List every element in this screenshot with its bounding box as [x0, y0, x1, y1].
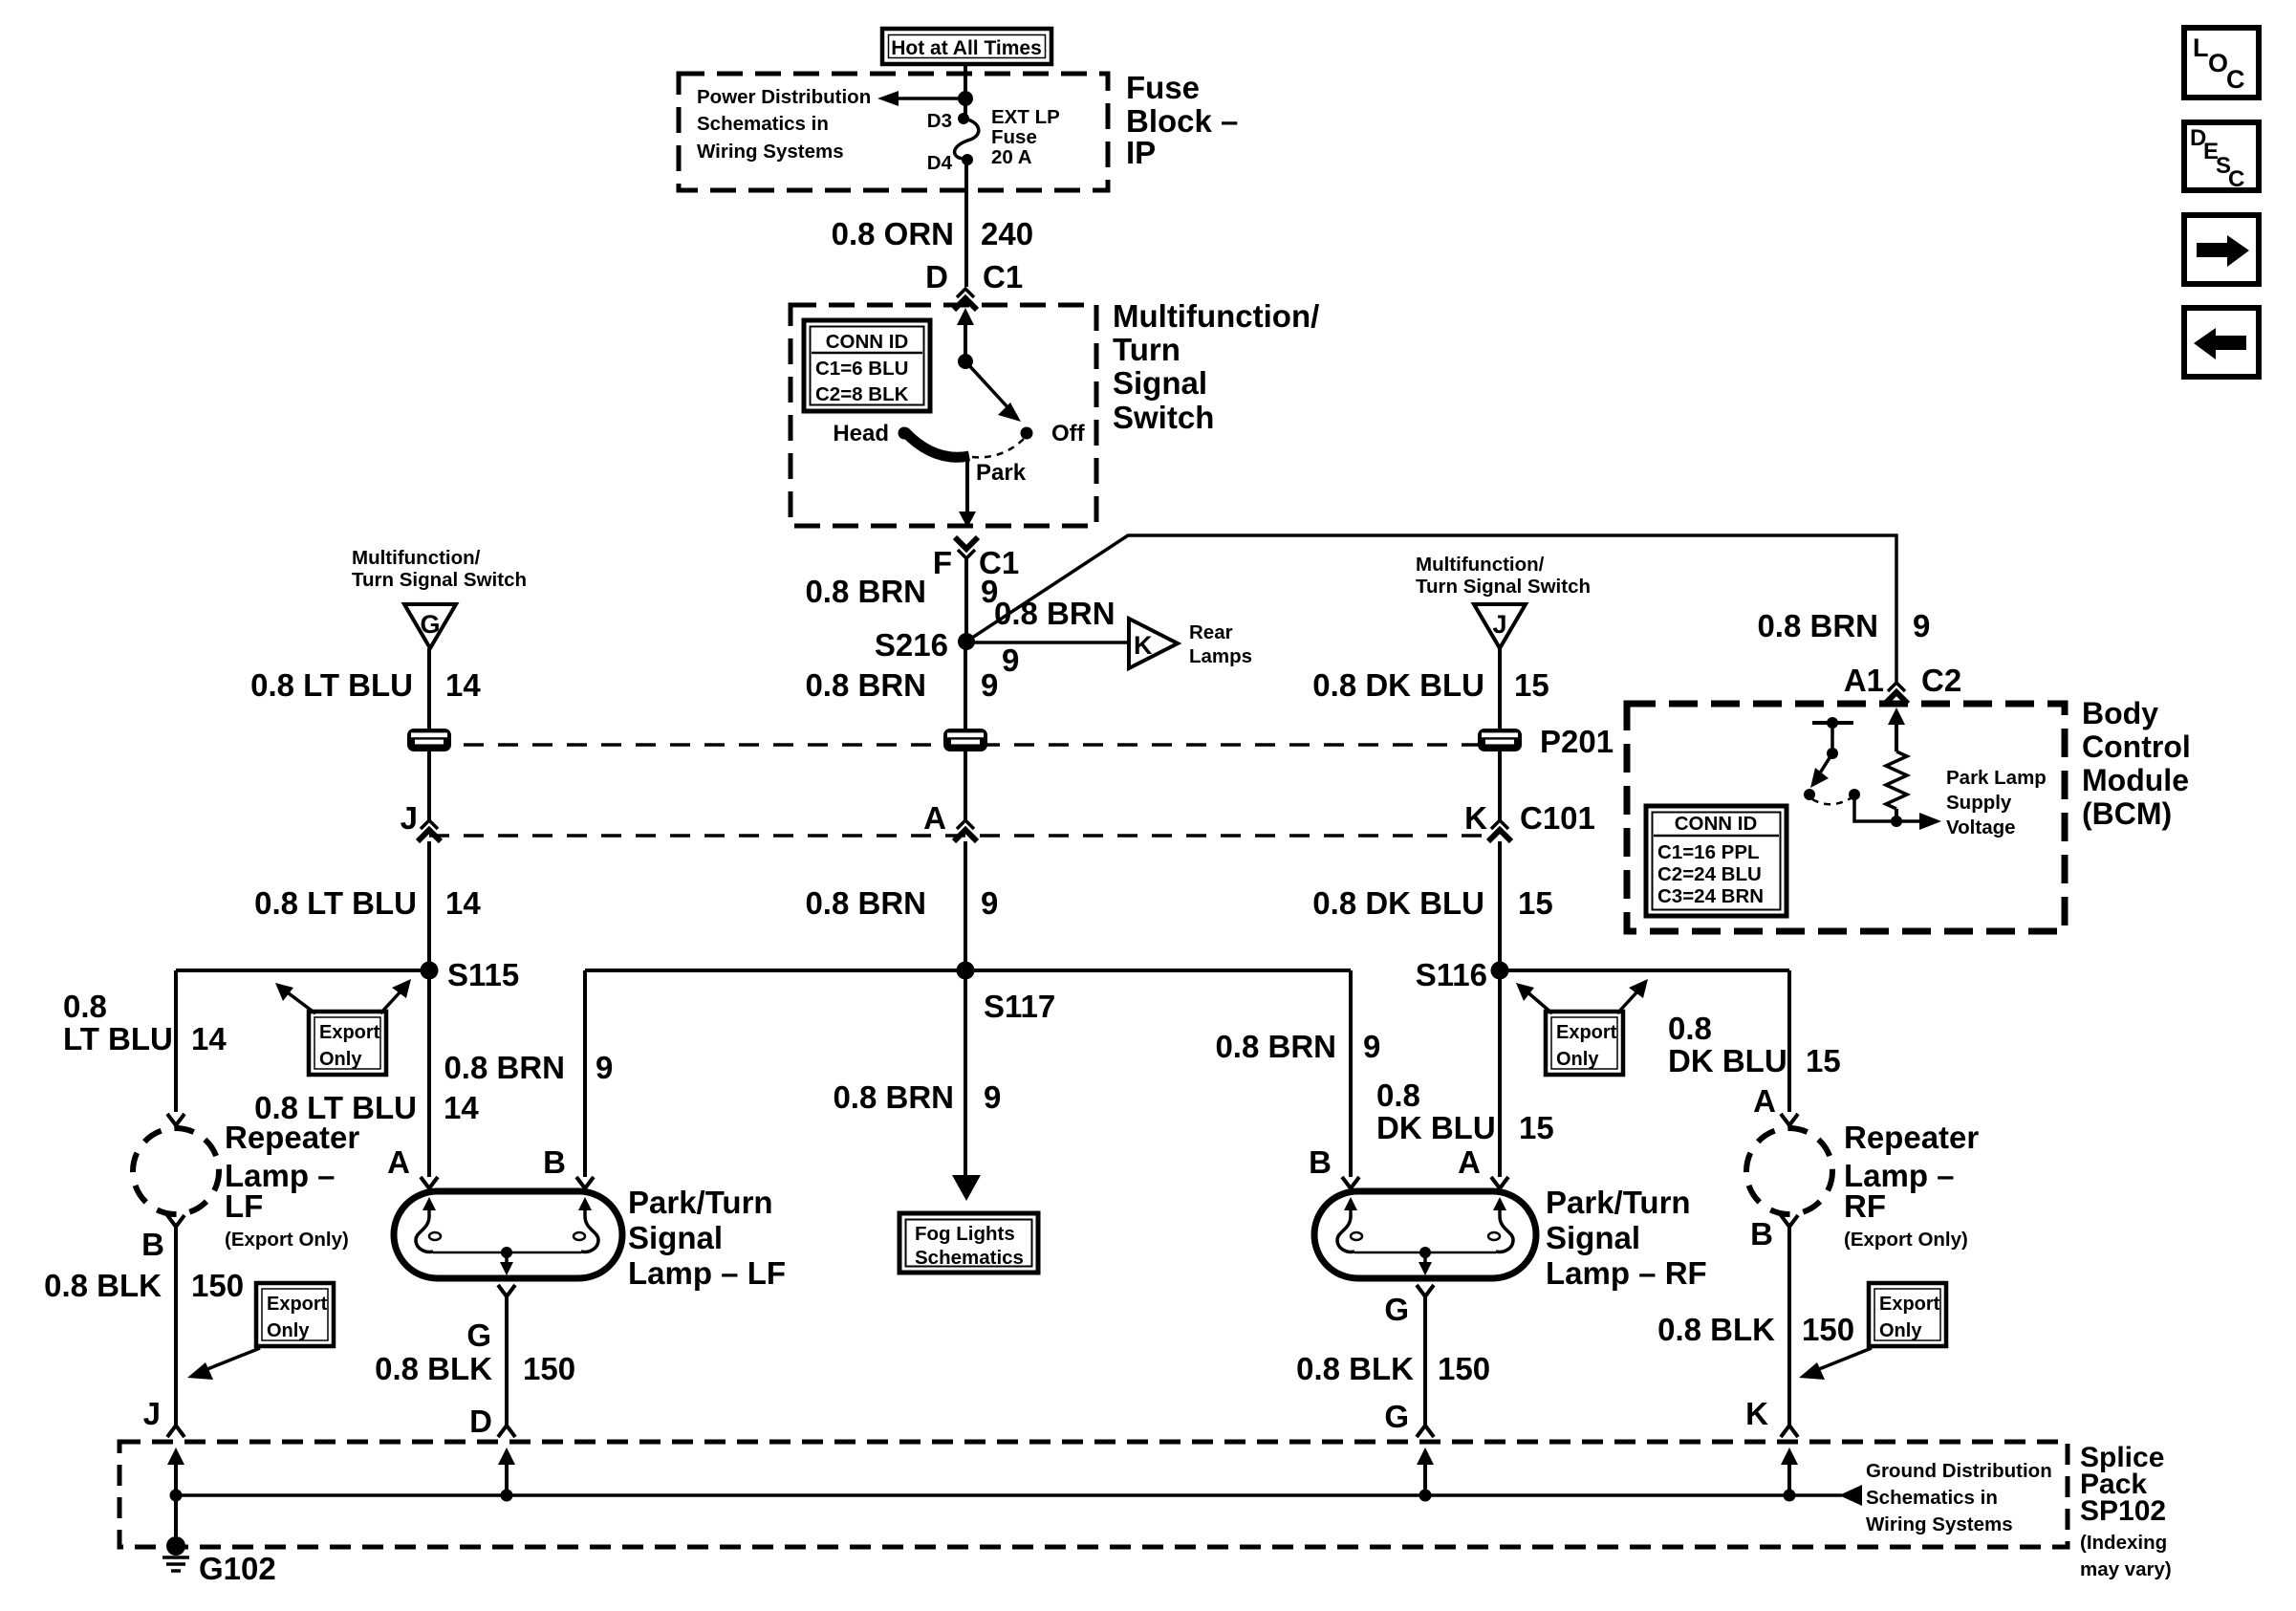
svg-text:0.8 DK BLU: 0.8 DK BLU	[1312, 667, 1484, 703]
label: Park Lamp Supply Voltage	[1946, 767, 2047, 838]
svg-text:9: 9	[984, 1079, 1001, 1115]
svg-text:L: L	[2193, 33, 2209, 62]
svg-text:CONN ID: CONN ID	[826, 331, 909, 353]
wire: resistor to output node	[1895, 809, 1898, 821]
svg-text:Schematics: Schematics	[915, 1247, 1024, 1269]
svg-text:P201: P201	[1540, 724, 1614, 759]
svg-text:J: J	[1492, 610, 1506, 639]
svg-text:Rear: Rear	[1189, 621, 1233, 643]
svg-text:G: G	[466, 1317, 491, 1353]
wire: 0.8 BLK 150 lamp LF to splice	[375, 1296, 575, 1426]
wire: 0.8 BLK 150 repeater LF to ground	[44, 1227, 244, 1426]
svg-text:LT BLU: LT BLU	[63, 1021, 173, 1056]
grommet P201	[1478, 724, 1614, 759]
wire: 0.8 BRN 9 top right to BCM	[1757, 608, 1930, 643]
svg-text:150: 150	[1438, 1351, 1490, 1386]
svg-text:0.8 BRN: 0.8 BRN	[805, 574, 926, 609]
pin A at C101 row	[923, 800, 977, 841]
svg-text:9: 9	[1913, 608, 1930, 643]
export only callout LF ground	[187, 1283, 334, 1380]
svg-text:0.8: 0.8	[63, 989, 107, 1024]
svg-text:G: G	[420, 610, 440, 639]
svg-text:Power Distribution: Power Distribution	[697, 86, 871, 108]
svg-text:EXT LP: EXT LP	[991, 106, 1060, 128]
node: bus junction J	[170, 1490, 183, 1502]
svg-text:K: K	[1464, 800, 1487, 836]
svg-text:0.8 DK BLU: 0.8 DK BLU	[1312, 885, 1484, 921]
svg-text:Module: Module	[2082, 763, 2189, 797]
repeater lamp LF	[133, 1114, 219, 1227]
svg-text:0.8 ORN: 0.8 ORN	[832, 216, 954, 251]
svg-text:15: 15	[1519, 1110, 1554, 1145]
svg-text:Schematics in: Schematics in	[697, 113, 829, 135]
svg-text:(Indexing: (Indexing	[2080, 1532, 2167, 1554]
wire: 0.8 BRN 9 S117 to fog lights	[833, 970, 1001, 1201]
BCM switch arm	[1810, 753, 1832, 788]
BCM switch contacts + travel arc	[1804, 789, 1860, 804]
dashed line: connector row C101	[429, 834, 1497, 838]
svg-text:F: F	[933, 545, 952, 580]
wire: center grommet to A connector	[964, 751, 967, 820]
svg-text:9: 9	[596, 1050, 613, 1085]
switch arm toward Off	[965, 361, 1021, 422]
wire: BCM switch to park lamp supply	[1854, 795, 1941, 830]
svg-text:(BCM): (BCM)	[2082, 796, 2172, 831]
node: junction at fuse feed	[958, 91, 973, 106]
repeater lamp RF	[1746, 1114, 1832, 1227]
svg-text:150: 150	[191, 1268, 244, 1303]
label: Repeater Lamp - RF (Export Only)	[1844, 1120, 1979, 1251]
pin B park/turn lamp RF	[1458, 1144, 1508, 1188]
export only callout at S115	[275, 979, 411, 1075]
wire: 0.8 BRN 9 S216 down	[805, 642, 998, 729]
svg-text:9: 9	[1002, 642, 1019, 678]
svg-text:G: G	[1384, 1399, 1409, 1434]
dashed line: bulkhead pass-through	[429, 743, 1497, 747]
svg-text:Voltage: Voltage	[1946, 816, 2016, 838]
pin D4	[927, 152, 973, 174]
wire: 0.8 DK BLU 15 from J	[1312, 648, 1549, 729]
svg-text:LF: LF	[225, 1188, 263, 1224]
svg-text:0.8 BLK: 0.8 BLK	[375, 1351, 492, 1386]
svg-text:C2=8 BLK: C2=8 BLK	[815, 383, 909, 405]
pin D3	[927, 110, 969, 132]
svg-text:Lamps: Lamps	[1189, 645, 1252, 667]
svg-text:14: 14	[445, 885, 481, 921]
svg-text:Wiring Systems: Wiring Systems	[1866, 1513, 2013, 1535]
svg-text:S115: S115	[447, 957, 519, 992]
button next arrow	[2184, 215, 2259, 284]
svg-text:Wiring Systems: Wiring Systems	[697, 141, 844, 163]
resistor in BCM	[1886, 751, 1907, 809]
svg-text:Multifunction/: Multifunction/	[1416, 554, 1545, 576]
svg-text:may vary): may vary)	[2080, 1558, 2172, 1580]
wire: D entry into splice	[498, 1448, 515, 1495]
svg-text:0.8 BLK: 0.8 BLK	[1296, 1351, 1414, 1386]
svg-text:DK BLU: DK BLU	[1668, 1043, 1787, 1078]
svg-text:A: A	[923, 800, 946, 836]
svg-text:D3: D3	[927, 110, 952, 132]
svg-text:G102: G102	[199, 1551, 276, 1586]
contact: Park	[976, 460, 1027, 486]
svg-text:S117: S117	[984, 989, 1055, 1024]
svg-text:Turn Signal Switch: Turn Signal Switch	[352, 569, 527, 591]
node S216	[875, 627, 975, 663]
svg-text:0.8 BRN: 0.8 BRN	[1215, 1029, 1336, 1064]
node: switch common	[958, 354, 973, 369]
wire: 0.8 BRN 9 to S117	[805, 841, 998, 970]
svg-text:Multifunction/: Multifunction/	[1113, 298, 1319, 334]
svg-text:0.8 BRN: 0.8 BRN	[444, 1050, 565, 1085]
svg-text:150: 150	[1802, 1312, 1854, 1347]
contact: Head with wiper arc	[833, 421, 969, 457]
node S117	[957, 962, 1056, 1025]
pin K at splice pack	[1745, 1396, 1798, 1437]
svg-text:150: 150	[523, 1351, 575, 1386]
svg-text:K: K	[1134, 631, 1153, 660]
svg-text:C: C	[2228, 166, 2244, 192]
svg-text:S116: S116	[1416, 957, 1487, 992]
svg-text:A1: A1	[1844, 663, 1884, 698]
wire: 0.8 BLK 150 repeater RF to ground	[1657, 1227, 1854, 1426]
svg-text:Fuse: Fuse	[991, 126, 1037, 148]
svg-text:0.8 BRN: 0.8 BRN	[805, 885, 926, 921]
svg-text:0.8 BRN: 0.8 BRN	[805, 667, 926, 703]
svg-text:J: J	[401, 800, 418, 836]
wire: left grommet to J connector	[427, 751, 431, 820]
node: bus junction K	[1784, 1490, 1796, 1502]
svg-text:J: J	[143, 1396, 161, 1431]
svg-text:Ground Distribution: Ground Distribution	[1866, 1460, 2052, 1482]
svg-text:Schematics in: Schematics in	[1866, 1487, 1998, 1509]
pin A1 / connector C2	[1844, 663, 1961, 704]
pin D / connector C1	[925, 259, 1023, 310]
svg-text:RF: RF	[1844, 1188, 1886, 1224]
label: Repeater Lamp - LF (Export Only)	[225, 1120, 359, 1251]
svg-text:CONN ID: CONN ID	[1675, 813, 1758, 835]
CONN ID table: C1=6 BLU C2=8 BLK	[804, 320, 930, 411]
svg-text:C1=16 PPL: C1=16 PPL	[1657, 841, 1760, 863]
svg-text:B: B	[543, 1144, 566, 1180]
svg-text:Body: Body	[2082, 696, 2158, 730]
svg-text:Fog Lights: Fog Lights	[915, 1223, 1015, 1245]
svg-text:Park: Park	[976, 460, 1027, 486]
wire: 0.8 ORN 240 fuse to switch	[832, 160, 1033, 287]
svg-text:D: D	[925, 259, 948, 294]
button DESC	[2184, 122, 2259, 192]
svg-text:14: 14	[191, 1021, 227, 1056]
pin A park/turn lamp RF	[1309, 1144, 1359, 1188]
wire: switch common entry	[957, 308, 974, 361]
svg-text:(Export Only): (Export Only)	[1844, 1229, 1968, 1251]
splice pack SP102 dashed box	[119, 1442, 2068, 1547]
svg-text:15: 15	[1806, 1043, 1841, 1078]
wire: BCM park lamp feed entry	[1888, 708, 1905, 751]
svg-text:Switch: Switch	[1113, 400, 1214, 435]
label: Park/Turn Signal Lamp - RF	[1546, 1185, 1707, 1291]
svg-text:IP: IP	[1126, 135, 1156, 170]
body control module dashed box	[1627, 704, 2065, 931]
fuse EXT LP 20A	[955, 106, 1060, 168]
button prev arrow	[2184, 308, 2259, 377]
svg-text:Fuse: Fuse	[1126, 70, 1200, 105]
button LOC	[2184, 28, 2259, 98]
wire: K entry into splice	[1781, 1448, 1798, 1495]
svg-text:A: A	[1458, 1144, 1481, 1180]
svg-text:Repeater: Repeater	[225, 1120, 359, 1155]
wire: 0.8 BRN 9 to lamp LF B	[444, 970, 613, 1177]
pin G park/turn lamp LF	[498, 1285, 515, 1296]
off-page connector K: Rear Lamps	[1129, 619, 1252, 668]
pin B repeater RF	[1750, 1216, 1773, 1252]
wire: battery feed into fuse block	[964, 63, 967, 119]
svg-text:Signal: Signal	[628, 1220, 723, 1255]
wire: 0.8 DK BLU 15 to S116	[1312, 841, 1552, 970]
pin J at splice pack	[143, 1396, 184, 1437]
wire: 0.8 LT BLU 14 from G	[250, 648, 481, 729]
wire: S115 branch to repeater LF	[176, 969, 429, 972]
svg-text:Turn Signal Switch: Turn Signal Switch	[1416, 576, 1591, 598]
label: Power Distribution Schematics in Wiring Systems	[697, 86, 871, 163]
pin G at splice pack (RF)	[1384, 1399, 1434, 1437]
label G pin RF	[1384, 1292, 1409, 1327]
svg-text:Repeater: Repeater	[1844, 1120, 1979, 1155]
svg-text:SP102: SP102	[2080, 1495, 2166, 1527]
CONN ID table: C1=16 PPL C2=24 BLU C3=24 BRN	[1646, 806, 1787, 916]
fuse block IP dashed box	[679, 74, 1108, 190]
svg-text:Head: Head	[833, 421, 889, 446]
node S115	[421, 957, 520, 992]
wire: park output inside switch	[959, 456, 976, 528]
off-page connector G: turn signal switch	[404, 604, 456, 648]
label: Multifunction/Turn Signal Switch (right)	[1416, 554, 1591, 598]
svg-text:Control: Control	[2082, 729, 2191, 764]
label: Fuse Block - IP	[1126, 70, 1238, 170]
wire: 0.8 DK BLU 15 S116 to repeater RF	[1668, 970, 1841, 1112]
svg-text:C1=6 BLU: C1=6 BLU	[815, 358, 908, 380]
svg-text:A: A	[387, 1144, 410, 1180]
svg-text:B: B	[141, 1227, 164, 1262]
wire: 0.8 LT BLU 14 S115 to repeater LF	[63, 970, 227, 1112]
svg-text:Lamp – RF: Lamp – RF	[1546, 1255, 1707, 1291]
park/turn signal lamp LF	[394, 1191, 622, 1278]
wire: diagonal S216 to BCM feed	[966, 535, 1896, 683]
pin F / connector C1	[933, 537, 1019, 580]
svg-text:C: C	[2226, 65, 2245, 94]
label: Body Control Module (BCM)	[2082, 696, 2191, 831]
svg-text:S216: S216	[875, 627, 948, 663]
wire: 0.8 BRN 9 to lamp RF B	[1215, 970, 1380, 1177]
svg-text:Hot at All Times: Hot at All Times	[891, 37, 1042, 59]
multifunction turn signal switch dashed box	[791, 305, 1096, 526]
svg-text:9: 9	[981, 667, 998, 703]
BCM switch top contact	[1812, 717, 1853, 759]
svg-text:Turn: Turn	[1113, 332, 1180, 367]
svg-text:Off: Off	[1051, 421, 1086, 446]
svg-text:14: 14	[445, 667, 481, 703]
contact: Off	[1021, 421, 1086, 446]
wire: arrow to power distribution	[877, 91, 965, 106]
wire: splice ground bus	[176, 1485, 1862, 1506]
svg-text:B: B	[1750, 1216, 1773, 1252]
node S116	[1416, 957, 1509, 992]
svg-text:Supply: Supply	[1946, 792, 2012, 814]
wire: S116 branch to repeater RF	[1500, 969, 1789, 972]
svg-text:0.8 BRN: 0.8 BRN	[833, 1079, 954, 1115]
svg-text:Park/Turn: Park/Turn	[1546, 1185, 1691, 1220]
pin B repeater LF	[141, 1227, 164, 1262]
pin D at splice pack	[469, 1404, 515, 1439]
svg-text:A: A	[1753, 1083, 1776, 1119]
svg-text:C2=24 BLU: C2=24 BLU	[1657, 863, 1762, 885]
svg-text:Signal: Signal	[1546, 1220, 1640, 1255]
svg-text:O: O	[2208, 49, 2228, 77]
export only callout at S116	[1516, 979, 1648, 1075]
svg-text:B: B	[1309, 1144, 1332, 1180]
svg-text:0.8 BLK: 0.8 BLK	[44, 1268, 162, 1303]
wire: S117 park lamp bus	[585, 969, 1351, 972]
pin A repeater RF	[1753, 1083, 1776, 1119]
label: Multifunction/Turn Signal Switch	[1113, 298, 1319, 435]
park/turn signal lamp RF	[1314, 1191, 1536, 1278]
svg-text:9: 9	[981, 885, 998, 921]
pin J at C101 row	[401, 800, 441, 841]
svg-text:0.8 BRN: 0.8 BRN	[1757, 608, 1878, 643]
svg-text:Park/Turn: Park/Turn	[628, 1185, 773, 1220]
grommet left	[407, 729, 451, 751]
svg-text:14: 14	[444, 1090, 479, 1125]
svg-text:C3=24 BRN: C3=24 BRN	[1657, 885, 1764, 907]
svg-text:0.8 LT BLU: 0.8 LT BLU	[250, 667, 413, 703]
svg-text:Signal: Signal	[1113, 365, 1207, 401]
wire: P201 to K connector	[1498, 751, 1502, 820]
pin K / connector C101	[1464, 800, 1595, 841]
node: bus junction G	[1419, 1490, 1432, 1502]
svg-text:0.8 LT BLU: 0.8 LT BLU	[254, 885, 417, 921]
wire: J entry into splice	[167, 1448, 184, 1546]
svg-text:0.8 BLK: 0.8 BLK	[1657, 1312, 1775, 1347]
label: Ground Distribution Schematics in Wiring Systems	[1866, 1460, 2052, 1535]
label G pin LF	[466, 1317, 491, 1353]
svg-text:0.8 BRN: 0.8 BRN	[994, 596, 1116, 631]
pin G park/turn lamp RF	[1417, 1285, 1434, 1296]
svg-text:Block –: Block –	[1126, 103, 1238, 139]
wire: 0.8 BRN 9 switch to S216	[805, 558, 998, 642]
svg-text:D: D	[469, 1404, 492, 1439]
svg-text:K: K	[1745, 1396, 1768, 1431]
wire: 0.8 LT BLU 14 to S115	[254, 841, 481, 970]
svg-text:240: 240	[981, 216, 1033, 251]
grommet center	[943, 729, 987, 751]
svg-text:20 A: 20 A	[991, 146, 1032, 168]
label: Park/Turn Signal Lamp - LF	[628, 1185, 786, 1291]
svg-text:D4: D4	[927, 152, 953, 174]
off-page connector J: turn signal switch	[1474, 604, 1526, 648]
label: Multifunction/Turn Signal Switch (left)	[352, 547, 527, 591]
svg-text:Multifunction/: Multifunction/	[352, 547, 481, 569]
label: Fog Lights Schematics box	[899, 1213, 1038, 1273]
svg-text:(Export Only): (Export Only)	[225, 1229, 349, 1251]
pin A park/turn lamp LF	[387, 1144, 438, 1188]
export only callout RF ground	[1799, 1283, 1946, 1380]
label: Splice Pack SP102 (Indexing may vary)	[2080, 1442, 2172, 1580]
svg-text:15: 15	[1514, 667, 1549, 703]
svg-text:C101: C101	[1520, 800, 1595, 836]
wire: 0.8 LT BLU 14 S115 to lamp A	[254, 970, 479, 1177]
svg-text:9: 9	[1363, 1029, 1380, 1064]
svg-text:0.8: 0.8	[1668, 1011, 1712, 1046]
ground G102	[162, 1536, 276, 1586]
svg-text:DK BLU: DK BLU	[1376, 1110, 1496, 1145]
wire: G entry into splice	[1417, 1448, 1434, 1495]
wire: 0.8 BLK 150 lamp RF to splice	[1296, 1296, 1490, 1426]
svg-text:C2: C2	[1921, 663, 1961, 698]
svg-text:Lamp – LF: Lamp – LF	[628, 1255, 786, 1291]
svg-text:Park Lamp: Park Lamp	[1946, 767, 2047, 789]
wire: 0.8 DK BLU 15 S116 to lamp RF A	[1376, 970, 1554, 1177]
pin B park/turn lamp LF	[543, 1144, 594, 1188]
svg-text:C1: C1	[983, 259, 1023, 294]
wire: 0.8 BRN 9 to rear lamps	[966, 596, 1129, 678]
node: bus junction D	[501, 1490, 513, 1502]
svg-text:G: G	[1384, 1292, 1409, 1327]
label: Hot at All Times	[882, 29, 1051, 64]
svg-text:0.8: 0.8	[1376, 1078, 1420, 1113]
svg-text:15: 15	[1518, 885, 1553, 921]
dashed travel arc to Off	[972, 439, 1024, 457]
